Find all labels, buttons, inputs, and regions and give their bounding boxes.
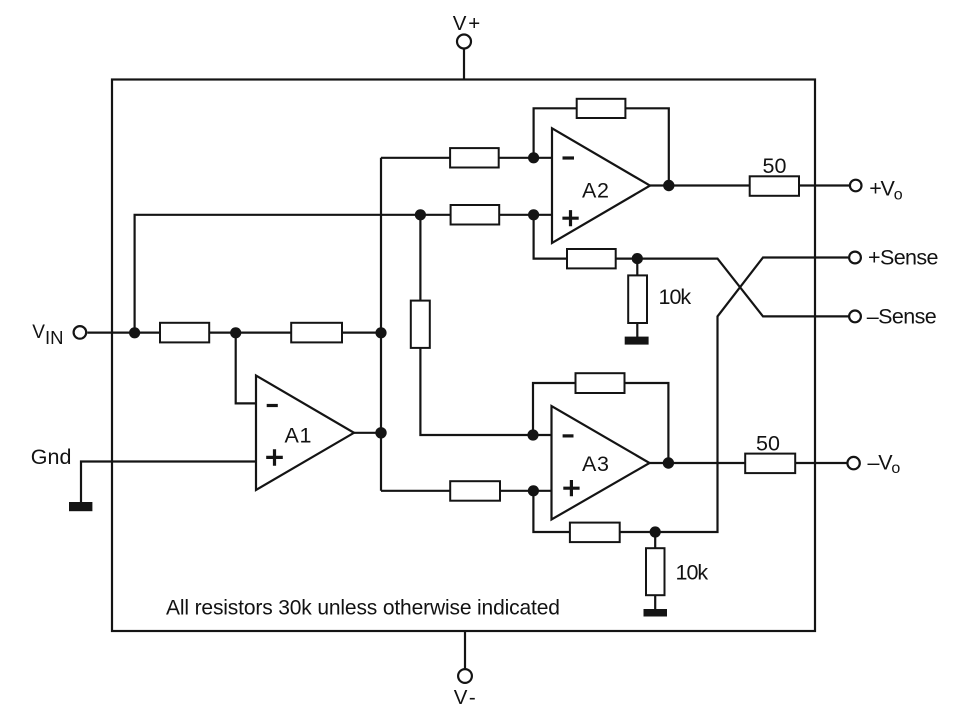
terminal circle +Vo: [850, 180, 862, 192]
terminal circle V-: [458, 669, 472, 683]
op-amp A2 minus pin sign: [563, 156, 575, 159]
resistor R8 30k (A3 plus input): [450, 481, 500, 501]
junction node A3 plus input: [528, 485, 539, 496]
resistor R6 30k (A2 sense): [567, 249, 616, 268]
wire A2 output row to +Vo: [650, 184, 849, 186]
svg-text:+Sense: +Sense: [868, 246, 938, 270]
op-amp A2 plus pin sign: [562, 210, 578, 226]
svg-text:V-: V-: [454, 686, 478, 709]
wire A2 minus input row: [381, 157, 552, 159]
op-amp A1 minus pin sign: [267, 404, 278, 407]
junction node A3 sense / 10k: [650, 526, 661, 537]
wire A2 feedback loop: [534, 108, 577, 158]
svg-text:10k: 10k: [659, 285, 692, 309]
ground symbol under 10k R13: [625, 337, 649, 345]
op-amp A1 triangle: [256, 376, 354, 491]
wire A3 sense node to +Sense terminal (crossover): [655, 258, 848, 533]
junction node A2 minus input: [528, 152, 539, 163]
wire 10k R14 to ground: [654, 532, 656, 610]
ground symbol at Gnd input: [69, 502, 92, 511]
resistor R9 30k (A3 feedback): [576, 373, 625, 393]
wire Gnd row to A1 plus input: [81, 462, 256, 503]
resistor R13 10k (to ground, upper): [628, 275, 647, 323]
op-amp A3 triangle: [552, 406, 650, 520]
wire 10k R13 to ground: [636, 259, 638, 337]
junction node A1 minus tap: [230, 327, 241, 338]
resistor R1 30k (VIN series 1): [160, 323, 209, 343]
terminal circle +Sense: [849, 252, 861, 264]
wire A1 output to node: [354, 432, 381, 434]
terminal circle -Vo: [847, 457, 859, 469]
svg-text:–Vo: –Vo: [868, 450, 901, 477]
wire V+ drop to box top: [463, 49, 465, 80]
junction node attenuator top: [415, 209, 426, 220]
wire A1 minus input branch: [236, 333, 256, 404]
junction node A2 sense / 10k: [632, 253, 643, 264]
package outline box: [112, 80, 815, 632]
op-amp A3 minus pin sign: [563, 434, 574, 437]
junction node A1 output: [375, 427, 386, 438]
terminal circle -Sense: [849, 311, 861, 323]
resistor R5 30k (A2 feedback): [577, 99, 626, 118]
svg-text:A2: A2: [582, 179, 610, 203]
resistor R7 30k (vertical center): [411, 301, 430, 348]
svg-text:VIN: VIN: [32, 322, 63, 348]
op-amp A2 triangle: [552, 128, 650, 243]
resistor R3 30k (A2 minus input): [450, 148, 499, 167]
op-amp A1 plus pin sign: [266, 449, 283, 466]
resistor R10 30k (A3 sense): [570, 523, 620, 543]
wire node VIN up-branch to +input row of A2: [135, 215, 552, 333]
junction node VIN entry: [129, 327, 140, 338]
svg-text:50: 50: [756, 431, 780, 455]
wire A3 feedback loop: [533, 383, 576, 435]
junction node A2 plus input: [528, 209, 539, 220]
svg-text:50: 50: [763, 154, 787, 178]
junction node A2 output: [663, 180, 674, 191]
svg-text:Gnd: Gnd: [31, 445, 72, 469]
svg-text:V+: V+: [453, 12, 482, 35]
wire V- drop from box bottom: [464, 631, 466, 668]
wire A2 sense node to -Sense terminal (crossover): [637, 259, 848, 317]
resistor R2 30k (VIN series 2): [291, 323, 342, 343]
junction node A3 output: [663, 457, 674, 468]
svg-text:A1: A1: [285, 423, 313, 447]
wire A3 sense branch: [533, 491, 655, 532]
wire A3 output row to -Vo: [650, 462, 847, 464]
svg-text:All resistors 30k unless other: All resistors 30k unless otherwise indic…: [166, 597, 560, 620]
op-amp A3 plus pin sign: [563, 480, 579, 496]
wire A2 feedback right leg: [625, 108, 668, 185]
svg-text:10k: 10k: [676, 560, 709, 584]
wire A2 sense branch: [534, 215, 638, 259]
terminal circle VIN: [74, 326, 87, 339]
junction node A3 minus input: [527, 429, 538, 440]
resistor R14 10k (to ground, lower): [646, 548, 665, 595]
resistor R12 50 ohm (-Vo series): [745, 454, 795, 474]
resistor R11 50 ohm (+Vo series): [750, 176, 799, 196]
svg-text:–Sense: –Sense: [867, 304, 936, 328]
wire A3 plus input row: [381, 490, 552, 492]
wire VIN input row: [87, 332, 381, 334]
wire central vertical bus at x=381: [380, 158, 382, 491]
wire 30k attenuator branch x=420 to A3 minus input: [420, 215, 551, 435]
junction node center bus / VIN row: [375, 327, 386, 338]
resistor R4 30k (A2 plus input): [451, 205, 500, 225]
svg-text:A3: A3: [582, 452, 610, 476]
wire A3 feedback right leg: [625, 383, 669, 463]
ground symbol under 10k R14: [644, 609, 668, 617]
svg-text:+Vo: +Vo: [869, 177, 903, 204]
terminal circle V+: [457, 35, 471, 49]
